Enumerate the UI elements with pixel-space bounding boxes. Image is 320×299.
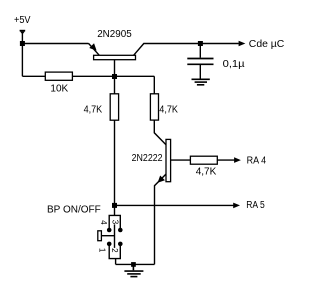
svg-text:RA 4: RA 4 — [247, 156, 267, 167]
svg-text:10K: 10K — [50, 84, 68, 95]
svg-text:4,7K: 4,7K — [159, 104, 178, 115]
svg-text:4,7K: 4,7K — [84, 104, 103, 115]
svg-text:4,7K: 4,7K — [196, 167, 217, 178]
svg-text:2: 2 — [110, 248, 119, 253]
svg-text:2N2222: 2N2222 — [132, 153, 163, 164]
svg-text:2N2905: 2N2905 — [97, 29, 132, 40]
svg-text:+5V: +5V — [14, 15, 31, 26]
svg-text:4: 4 — [99, 220, 108, 225]
svg-text:RA 5: RA 5 — [246, 200, 265, 211]
svg-text:0,1µ: 0,1µ — [223, 59, 245, 70]
svg-text:Cde µC: Cde µC — [249, 39, 284, 50]
svg-text:1: 1 — [98, 248, 107, 253]
svg-text:3: 3 — [110, 220, 119, 225]
svg-text:BP ON/OFF: BP ON/OFF — [47, 204, 101, 215]
